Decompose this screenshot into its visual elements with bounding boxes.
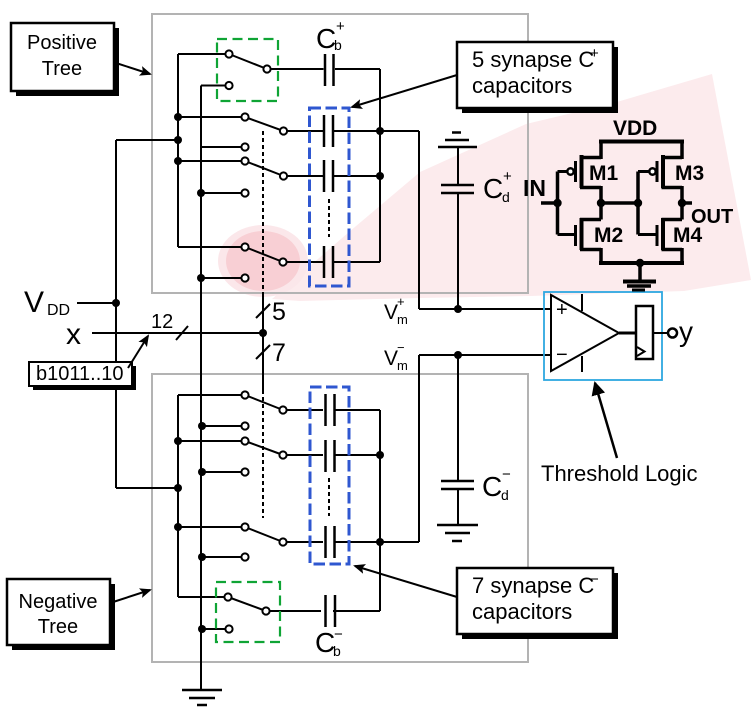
svg-text:5: 5: [272, 298, 286, 326]
svg-text:V: V: [384, 301, 398, 324]
svg-text:12: 12: [151, 311, 173, 333]
svg-text:−: −: [397, 340, 405, 355]
svg-text:C: C: [483, 173, 503, 204]
svg-text:+: +: [590, 45, 599, 62]
svg-text:Tree: Tree: [42, 58, 82, 80]
svg-text:C: C: [482, 471, 502, 502]
svg-text:IN: IN: [523, 175, 546, 201]
svg-text:V: V: [24, 286, 44, 319]
svg-text:7: 7: [272, 339, 286, 367]
svg-text:y: y: [679, 316, 693, 347]
svg-text:Tree: Tree: [38, 616, 78, 638]
svg-text:OUT: OUT: [691, 206, 733, 228]
svg-text:b: b: [333, 643, 341, 659]
svg-text:+: +: [397, 294, 405, 309]
svg-text:5 synapse C: 5 synapse C: [472, 47, 594, 72]
svg-text:+: +: [503, 168, 512, 185]
svg-text:M3: M3: [675, 162, 704, 185]
svg-text:x: x: [66, 318, 81, 351]
svg-text:Threshold Logic: Threshold Logic: [541, 461, 698, 486]
svg-text:b1011..10: b1011..10: [36, 363, 124, 385]
svg-text:capacitors: capacitors: [472, 599, 572, 624]
svg-text:M1: M1: [589, 162, 618, 185]
svg-text:Negative: Negative: [19, 591, 98, 613]
svg-text:7 synapse C: 7 synapse C: [472, 573, 594, 598]
svg-text:capacitors: capacitors: [472, 73, 572, 98]
svg-text:m: m: [397, 358, 408, 373]
svg-text:−: −: [502, 466, 511, 483]
svg-text:M2: M2: [594, 224, 623, 247]
svg-text:b: b: [334, 37, 342, 53]
svg-text:−: −: [590, 571, 599, 588]
svg-text:V: V: [384, 347, 398, 370]
svg-text:DD: DD: [47, 302, 70, 319]
svg-text:d: d: [501, 487, 509, 503]
svg-text:+: +: [556, 299, 568, 321]
svg-text:d: d: [502, 189, 510, 205]
svg-text:VDD: VDD: [613, 117, 657, 140]
svg-text:+: +: [336, 18, 345, 35]
svg-text:−: −: [556, 344, 568, 366]
svg-text:m: m: [397, 312, 408, 327]
svg-text:Positive: Positive: [27, 32, 97, 54]
svg-text:−: −: [334, 626, 343, 643]
